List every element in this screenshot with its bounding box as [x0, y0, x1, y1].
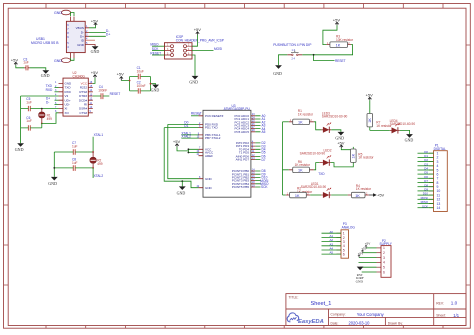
- svg-text:PC6 RESET#: PC6 RESET#: [205, 114, 224, 118]
- wire +5V to VCC AVCC: [177, 147, 199, 153]
- wire C1 C2 loop: [121, 77, 150, 91]
- svg-text:SCK: SCK: [422, 204, 428, 208]
- wire +5V to VCC: [93, 78, 95, 84]
- wire +5V to R3: [323, 25, 337, 44]
- wire digital D2: [418, 161, 434, 163]
- LED LED4: [370, 119, 416, 134]
- wire digital D0: [418, 152, 434, 154]
- wire supply pin3: [359, 257, 377, 259]
- svg-text:+5V: +5V: [361, 247, 366, 251]
- svg-text:CON_HEADER_PRG_AVR_ICSP: CON_HEADER_PRG_AVR_ICSP: [176, 38, 224, 42]
- wire UD+: [55, 99, 59, 101]
- svg-text:+5V: +5V: [11, 58, 19, 63]
- svg-text:GND: GND: [54, 59, 62, 63]
- svg-text:RESET: RESET: [191, 112, 202, 116]
- node junction AVCC: [188, 152, 190, 154]
- capacitor C5: [26, 97, 32, 111]
- svg-text:+5V: +5V: [333, 18, 341, 23]
- power flag +5V at supply pin2: [361, 247, 366, 253]
- svg-text:+5V: +5V: [117, 72, 125, 77]
- svg-text:XTAL1: XTAL1: [94, 133, 104, 137]
- resistor R3 10K pullup: [326, 35, 354, 48]
- power flag +5V at USB VBUS: [91, 18, 99, 25]
- node A0-A5 labels at U3: [262, 114, 266, 134]
- wire USB shield to GND flag: [71, 13, 75, 17]
- svg-text:GND: GND: [151, 87, 160, 92]
- connector USB1 MICRO USB 5S B: [31, 17, 95, 59]
- node junction at button: [313, 54, 315, 56]
- svg-text:GND: GND: [189, 80, 198, 85]
- wire bus to R1: [283, 121, 289, 123]
- wire USB shield to bottom GND flag: [71, 58, 75, 60]
- wire LED1 to R4: [331, 194, 347, 196]
- wire D-: [89, 31, 106, 33]
- svg-text:GND: GND: [41, 73, 50, 78]
- wire D+: [89, 35, 106, 37]
- wire analog A3: [322, 245, 342, 247]
- power flag +5V at supply pin1: [365, 242, 370, 248]
- svg-text:Drawn By:: Drawn By:: [388, 321, 403, 325]
- capacitor C7: [72, 141, 78, 155]
- ground at USB: [91, 46, 100, 54]
- wire D0 row: [168, 123, 199, 125]
- node junction XO: [41, 123, 43, 125]
- svg-text:1K: 1K: [298, 169, 303, 173]
- svg-text:10K resistor: 10K resistor: [336, 38, 354, 42]
- svg-text:GND: GND: [356, 279, 364, 283]
- node D2-D7 labels at U3: [262, 141, 266, 162]
- TITLE BLOCK: [286, 294, 466, 326]
- wire R3 to button to RESET: [302, 45, 352, 61]
- wire XTAL2 to U3: [181, 137, 198, 139]
- power flag +5V at R3 pullup: [333, 18, 341, 26]
- svg-text:PD1 TXD: PD1 TXD: [205, 126, 218, 130]
- ground at C1 C2: [151, 85, 160, 93]
- svg-text:SAR2SD10-60-90: SAR2SD10-60-90: [300, 152, 326, 156]
- wire ICSP pin2 to +5V: [192, 35, 198, 47]
- svg-text:6: 6: [343, 253, 345, 257]
- wire supply pin5: [360, 266, 376, 268]
- svg-text:499: 499: [97, 162, 103, 166]
- wire XTAL1 to U3: [181, 134, 198, 136]
- wire MISO: [152, 45, 165, 47]
- svg-text:4: 4: [383, 261, 385, 265]
- svg-text:499: 499: [47, 117, 53, 121]
- svg-text:D-: D-: [46, 101, 49, 105]
- wire R5 to LED2: [331, 163, 354, 167]
- svg-text:GND: GND: [177, 190, 186, 195]
- ground at LED4: [405, 134, 414, 142]
- LED LED1: [301, 182, 332, 198]
- wire button left to GND: [279, 55, 288, 66]
- wire C8 row: [54, 167, 93, 169]
- node junction C1C2: [129, 80, 131, 82]
- power flag +5V at ICSP: [194, 27, 202, 35]
- svg-text:A5: A5: [330, 251, 334, 255]
- svg-text:+5V: +5V: [365, 242, 370, 246]
- wire PD stubs: [255, 143, 260, 160]
- wire V3 rail: [21, 96, 59, 143]
- wire digital D5: [418, 173, 434, 175]
- svg-text:REV:: REV:: [436, 301, 444, 305]
- svg-text:Date:: Date:: [331, 321, 339, 325]
- svg-text:1K resistor: 1K resistor: [358, 156, 374, 160]
- svg-text:Sheet_1: Sheet_1: [311, 301, 332, 307]
- resistor R5 1K vertical: [341, 147, 374, 165]
- wire analog A2: [322, 241, 342, 243]
- switch PUSHBUTTON 4 PIN DIP: [273, 43, 312, 60]
- power flag +5V at R7: [366, 93, 374, 101]
- header ICSP: [165, 35, 224, 59]
- wire bus to R6 and R6 to LED2: [283, 163, 320, 170]
- wire PB stubs: [255, 171, 260, 187]
- ground at CH340G left: [15, 143, 24, 152]
- capacitor C1: [137, 66, 144, 79]
- resistor R7 1K vertical: [367, 100, 392, 130]
- wire ICSP MOSI: [192, 50, 214, 52]
- svg-text:1K: 1K: [368, 118, 372, 123]
- svg-text:1uF: 1uF: [72, 145, 78, 149]
- node junction XTAL1: [92, 151, 94, 153]
- LED LED2: [300, 148, 332, 165]
- wire XTAL1 vertical: [92, 137, 94, 152]
- svg-text:XTAL2: XTAL2: [94, 174, 104, 178]
- svg-text:1K: 1K: [298, 121, 303, 125]
- svg-text:RXD: RXD: [46, 88, 53, 92]
- wire XO line: [42, 113, 59, 124]
- svg-text:2: 2: [383, 251, 385, 255]
- resistor R6 1K: [289, 160, 314, 173]
- svg-text:100nF: 100nF: [98, 88, 107, 92]
- ground at C3: [41, 70, 50, 78]
- node GND flag bottom of USB: [54, 58, 71, 63]
- wire USB GND pin down: [89, 45, 95, 47]
- header P2 SUPPLY: [377, 239, 393, 278]
- svg-text:1K: 1K: [336, 43, 341, 47]
- wire supply pin6: [362, 271, 377, 273]
- node GND flag top of USB: [54, 10, 71, 15]
- svg-text:14: 14: [437, 206, 441, 210]
- wire C6 line: [21, 123, 42, 128]
- svg-text:RESET: RESET: [110, 92, 121, 96]
- svg-text:1uF: 1uF: [26, 119, 32, 123]
- svg-text:GND: GND: [405, 137, 414, 142]
- wire RESET to U3: [191, 115, 199, 117]
- svg-text:VBUS: VBUS: [76, 26, 84, 30]
- svg-text:1uF: 1uF: [72, 161, 78, 165]
- svg-text:+5V: +5V: [366, 93, 374, 98]
- header P1 DIGITAL: [429, 144, 447, 212]
- svg-text:10uF: 10uF: [137, 69, 144, 73]
- wire U3 GND pin22: [164, 128, 198, 188]
- svg-text:TXD: TXD: [318, 172, 325, 176]
- ground at U3: [177, 181, 186, 195]
- svg-text:GND: GND: [205, 186, 213, 190]
- svg-text:RESET: RESET: [335, 59, 346, 63]
- svg-text:GND: GND: [77, 43, 85, 47]
- wire RESET to ICSP: [152, 54, 165, 56]
- svg-text:GND: GND: [91, 49, 100, 54]
- wire digital D8: [418, 186, 434, 188]
- IC U2 CH340G: [55, 71, 93, 116]
- resistor R2 1K: [286, 187, 313, 198]
- svg-text:D7: D7: [262, 158, 266, 162]
- node junction XTAL2: [92, 167, 94, 169]
- svg-text:AIN1 PD7: AIN1 PD7: [236, 158, 250, 162]
- capacitor C2: [137, 81, 146, 94]
- svg-text:PC5 ADC5: PC5 ADC5: [234, 130, 249, 134]
- resistor R2 499 (crystal): [90, 152, 103, 168]
- wire analog A5: [322, 253, 342, 255]
- wire +5V to C3 to GND: [16, 65, 46, 70]
- svg-text:100nF: 100nF: [137, 84, 146, 88]
- svg-text:CTS#: CTS#: [79, 111, 87, 115]
- ground at ICSP: [189, 76, 198, 85]
- svg-text:1K resistor: 1K resistor: [356, 187, 372, 191]
- wire SCK: [152, 50, 165, 52]
- wire crystal left leg: [53, 152, 55, 177]
- wire digital D1: [418, 156, 434, 158]
- wire C2 to GND: [151, 83, 156, 86]
- wire supply pin4: [359, 261, 377, 263]
- svg-text:+5V: +5V: [358, 251, 363, 255]
- svg-text:+5V: +5V: [337, 140, 345, 145]
- ground at LED3: [335, 132, 344, 141]
- svg-text:GND: GND: [15, 147, 24, 152]
- wire XI line through C5: [21, 108, 59, 110]
- svg-text:Company:: Company:: [331, 313, 346, 317]
- wire analog A0: [322, 232, 342, 234]
- header P3 ANALOG: [337, 222, 356, 258]
- svg-text:ANALOG: ANALOG: [342, 225, 356, 229]
- svg-text:TITLE:: TITLE:: [289, 296, 299, 300]
- capacitor C8: [72, 158, 78, 171]
- svg-text:GND: GND: [54, 11, 62, 15]
- wire digital D3: [418, 165, 434, 167]
- wire digital MISO: [418, 203, 434, 205]
- ground at pushbutton: [273, 65, 282, 76]
- wire digital SCK: [418, 207, 434, 209]
- svg-text:SAR2SD10-60-90: SAR2SD10-60-90: [322, 115, 348, 119]
- svg-text:SCK: SCK: [261, 185, 268, 189]
- capacitor C6: [26, 116, 32, 131]
- svg-text:1K: 1K: [355, 194, 360, 198]
- wire C7 row: [54, 151, 93, 153]
- svg-text:+5V: +5V: [91, 18, 99, 23]
- LED LED3: [314, 111, 348, 133]
- resistor R1 499 (crystal): [39, 109, 53, 124]
- wire UD-: [55, 103, 59, 105]
- svg-text:A5: A5: [262, 130, 266, 134]
- wire ICSP pin6 to GND: [192, 55, 195, 76]
- capacitor C4: [98, 85, 107, 99]
- svg-text:SAR2SD10-60-90: SAR2SD10-60-90: [390, 122, 416, 126]
- power flag +5V at supply pin3: [358, 251, 363, 257]
- svg-text:6: 6: [383, 270, 385, 274]
- svg-text:+5V: +5V: [173, 139, 181, 144]
- svg-text:SAR2SD10-60-90: SAR2SD10-60-90: [301, 185, 327, 189]
- wire analog A1: [322, 236, 342, 238]
- node junction XI: [41, 108, 43, 110]
- svg-text:MOSI: MOSI: [214, 47, 222, 51]
- wire LED bus vertical: [282, 122, 284, 195]
- svg-text:AREF: AREF: [205, 154, 213, 158]
- svg-text:5: 5: [383, 266, 385, 270]
- resistor R4 1K: [348, 184, 372, 198]
- svg-text:PUSHBUTTON 4 PIN DIP: PUSHBUTTON 4 PIN DIP: [273, 43, 312, 47]
- svg-text:MICRO USB 5S B: MICRO USB 5S B: [31, 41, 59, 45]
- power flag +5V at R5: [337, 140, 345, 148]
- svg-text:1K: 1K: [352, 153, 356, 158]
- svg-text:3: 3: [383, 256, 385, 260]
- wire digital D10: [418, 194, 434, 196]
- svg-text:1uF: 1uF: [26, 100, 32, 104]
- wire VBUS to +5V: [89, 26, 96, 28]
- IC U3 ATMEGA328P-PU: [197, 104, 256, 197]
- svg-text:GND: GND: [48, 181, 57, 186]
- svg-text:XO: XO: [65, 111, 70, 115]
- node junction VCC: [188, 148, 190, 150]
- node junction GND: [181, 180, 183, 182]
- svg-text:PB7 XTAL2: PB7 XTAL2: [205, 136, 221, 140]
- svg-text:+5V: +5V: [377, 192, 385, 197]
- wire ADC stubs: [255, 116, 260, 132]
- resistor R1 1K: [289, 109, 314, 125]
- svg-text:+5V: +5V: [91, 70, 99, 75]
- wire digital MOSI: [418, 198, 434, 200]
- svg-text:PCINT5 PB5: PCINT5 PB5: [232, 185, 250, 189]
- svg-text:1uF: 1uF: [23, 61, 29, 65]
- node junction C2 gnd: [150, 83, 152, 85]
- wire digital D4: [418, 169, 434, 171]
- svg-text:EasyEDA: EasyEDA: [298, 319, 324, 325]
- svg-text:1/1: 1/1: [453, 313, 459, 318]
- ground at crystal: [48, 177, 57, 186]
- wire supply pin1: [366, 247, 377, 249]
- svg-text:1.0: 1.0: [451, 301, 458, 306]
- wire TXD: [55, 87, 59, 89]
- wire DTR to C4 to RESET: [93, 95, 110, 97]
- node junction crystal gnd: [53, 167, 55, 169]
- power flag +5V at C1 C2: [117, 72, 125, 81]
- svg-text:D+: D+: [106, 33, 110, 37]
- svg-text:1: 1: [383, 246, 385, 250]
- svg-text:1K resistor: 1K resistor: [295, 163, 311, 167]
- svg-text:Sheet:: Sheet:: [436, 314, 446, 318]
- svg-text:GND: GND: [273, 71, 282, 76]
- wire U3 GND pin8: [168, 124, 199, 178]
- svg-text:1K: 1K: [295, 194, 300, 198]
- wire RXD: [55, 91, 59, 93]
- wire digital D6: [418, 177, 434, 179]
- capacitor C3: [23, 57, 30, 70]
- svg-text:2020-03-10: 2020-03-10: [349, 321, 371, 326]
- ground at supply header: [356, 267, 364, 284]
- wire supply pin2: [363, 252, 377, 254]
- wire XTAL2 vertical: [92, 168, 94, 178]
- power flag +5V at R4: [369, 192, 385, 197]
- wire LED4 to GND: [400, 130, 410, 134]
- wire D1 row: [164, 127, 198, 129]
- power flag +5V at U3 VCC: [173, 139, 181, 147]
- power flag +5V at CH340G VCC: [91, 70, 99, 78]
- wire digital D9: [418, 190, 434, 192]
- wire digital D7: [418, 182, 434, 184]
- wire analog A4: [322, 249, 342, 251]
- svg-text:1K resistor: 1K resistor: [298, 112, 314, 116]
- wire LED3 to GND: [331, 130, 341, 132]
- power flag +5V at C3: [11, 58, 19, 66]
- wire bus to R2: [283, 194, 286, 196]
- svg-text:Your Company: Your Company: [357, 312, 385, 317]
- svg-text:GND: GND: [205, 177, 213, 181]
- node D8-SCK labels at U3: [260, 169, 269, 189]
